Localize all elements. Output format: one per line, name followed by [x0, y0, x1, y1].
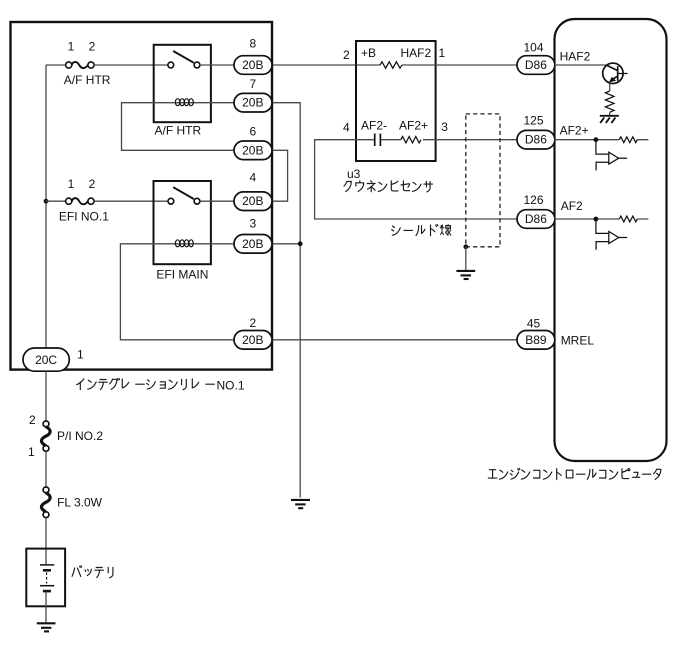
svg-text:2: 2	[343, 48, 350, 62]
connector 20B pin 3	[234, 235, 272, 254]
relay EFI MAIN coil	[175, 240, 193, 247]
connector B89 pin 45	[517, 331, 555, 350]
junction dot AF2	[594, 217, 599, 222]
fuse A/F HTR	[66, 62, 95, 68]
svg-text:A/F HTR: A/F HTR	[155, 124, 202, 138]
svg-text:A/F HTR: A/F HTR	[64, 73, 111, 87]
svg-text:8: 8	[249, 37, 256, 51]
fuse EFI NO.1	[66, 198, 95, 204]
wire 20B-8 to sensor +B	[272, 64, 357, 66]
resistor (HAF2 pulldown)	[605, 91, 614, 112]
svg-text:20B: 20B	[242, 194, 263, 208]
connector 20B pin 4	[234, 192, 272, 211]
fusible link P/I NO.2	[43, 421, 49, 451]
wire 20C down	[45, 371, 47, 420]
svg-text:3: 3	[441, 120, 448, 134]
comparator (AF2+)	[596, 140, 627, 171]
svg-text:1: 1	[77, 348, 84, 362]
wire left bus	[45, 65, 47, 348]
label integration relay NO.1	[77, 378, 215, 389]
connector 20B pin 6	[234, 141, 272, 160]
svg-text:NO.1: NO.1	[217, 379, 245, 393]
wire coil row + drop to 20B-2	[120, 244, 234, 340]
ground battery	[37, 623, 56, 631]
svg-text:AF2+: AF2+	[560, 123, 589, 137]
svg-text:20B: 20B	[242, 58, 263, 72]
svg-text:+B: +B	[361, 46, 376, 60]
svg-text:4: 4	[343, 121, 350, 135]
wire D86-126 into ECU	[555, 218, 649, 220]
resistor (AF2+)	[619, 137, 637, 143]
label shield wire	[392, 224, 451, 235]
svg-text:B89: B89	[525, 333, 547, 347]
svg-text:104: 104	[523, 40, 543, 54]
svg-text:4: 4	[249, 170, 256, 184]
wire 20B-7 right, down to ground bus	[272, 103, 301, 498]
wire link to link	[45, 451, 47, 487]
chassis ground (ECU)	[600, 116, 619, 123]
wire 20B-3 to bus junction	[272, 243, 301, 245]
wire fuse to relay	[94, 64, 168, 66]
connector 20B pin 8	[234, 56, 272, 75]
wire HAF2 to D86-104	[436, 64, 517, 66]
wire emitter down	[609, 83, 611, 91]
connector 20C pin 1	[23, 348, 69, 371]
relay EFI MAIN switch	[168, 198, 200, 204]
wire to battery	[45, 518, 47, 565]
connector 20B pin 2	[234, 331, 272, 350]
label engine control computer	[488, 468, 661, 479]
integration relay box	[11, 22, 273, 370]
svg-text:20B: 20B	[242, 96, 263, 110]
svg-text:2: 2	[89, 177, 96, 191]
svg-text:D86: D86	[525, 133, 547, 147]
comparator (AF2)	[596, 219, 627, 250]
svg-text:126: 126	[523, 193, 543, 207]
wire battery to ground	[45, 592, 47, 623]
svg-text:20B: 20B	[242, 237, 263, 251]
svg-text:6: 6	[249, 125, 256, 139]
wire D86-104 into ECU	[555, 64, 607, 66]
svg-text:1: 1	[68, 40, 75, 54]
svg-text:125: 125	[523, 113, 543, 127]
svg-text:45: 45	[527, 316, 541, 330]
svg-text:AF2: AF2	[561, 199, 583, 213]
wire coil row + drop to 20B-6	[122, 103, 235, 151]
wire to fuse A/F HTR	[46, 64, 66, 66]
relay A/F HTR box	[154, 45, 211, 122]
wire 20B-2 to B89-45	[272, 339, 518, 341]
svg-text:20B: 20B	[242, 143, 263, 157]
svg-text:AF2-: AF2-	[361, 118, 387, 132]
svg-text:u3: u3	[347, 167, 361, 181]
junction dot	[298, 241, 303, 246]
relay EFI MAIN box	[154, 181, 211, 264]
resistor (AF2)	[619, 216, 637, 222]
svg-text:MREL: MREL	[561, 333, 595, 347]
fusible link FL 3.0W	[43, 487, 49, 518]
svg-text:D86: D86	[525, 58, 547, 72]
svg-text:D86: D86	[525, 212, 547, 226]
relay A/F HTR coil	[175, 99, 193, 106]
svg-text:HAF2: HAF2	[560, 49, 591, 63]
battery	[26, 549, 65, 607]
wire switch to 20B-4	[200, 200, 235, 202]
junction dot AF2+	[594, 137, 599, 142]
capacitor	[375, 134, 381, 147]
shield drain wire	[465, 247, 467, 271]
wire fuse to relay EFI MAIN	[94, 200, 168, 202]
svg-text:1: 1	[68, 177, 75, 191]
svg-text:EFI MAIN: EFI MAIN	[156, 267, 208, 281]
connector D86 pin 125	[517, 130, 555, 149]
svg-text:2: 2	[29, 413, 36, 427]
ECU rounded box	[555, 19, 667, 461]
svg-text:20B: 20B	[242, 333, 263, 347]
svg-text:HAF2: HAF2	[401, 46, 432, 60]
shield dashed box	[466, 114, 500, 247]
ground shield	[456, 271, 475, 279]
svg-text:P/I NO.2: P/I NO.2	[57, 429, 103, 443]
label air-fuel ratio sensor	[344, 181, 433, 192]
wire D86-125 into ECU	[555, 139, 649, 141]
svg-text:FL 3.0W: FL 3.0W	[57, 496, 103, 510]
wire switch to 20B-8	[200, 64, 235, 66]
connector 20B pin 7	[234, 93, 272, 112]
cell resistor	[401, 137, 421, 143]
svg-text:20C: 20C	[35, 353, 57, 367]
shield drain dot	[463, 244, 468, 249]
A/F sensor box u3	[356, 41, 436, 161]
svg-text:1: 1	[439, 46, 446, 60]
heater wire + resistor	[356, 64, 436, 66]
junction dot EFI NO.1 tap	[44, 199, 49, 204]
transistor (HAF2 driver)	[603, 63, 628, 83]
svg-text:2: 2	[89, 40, 96, 54]
connector D86 pin 126	[517, 210, 555, 229]
wire AF2+ to D86-125	[436, 139, 517, 141]
wire 20B-6 loop to 20B-4	[272, 150, 288, 201]
sensor cell wire	[356, 139, 436, 141]
label battery	[72, 566, 113, 578]
svg-text:7: 7	[249, 77, 256, 91]
svg-text:2: 2	[249, 316, 256, 330]
svg-text:AF2+: AF2+	[399, 118, 428, 132]
svg-text:EFI NO.1: EFI NO.1	[59, 210, 109, 224]
connector D86 pin 104	[517, 56, 555, 75]
ground (relay coils bus)	[291, 500, 310, 508]
wire to fuse EFI NO.1	[46, 200, 66, 202]
svg-text:3: 3	[249, 216, 256, 230]
wire AF2- loop to D86-126	[315, 140, 517, 219]
relay A/F HTR switch	[168, 62, 200, 68]
svg-text:1: 1	[28, 445, 35, 459]
